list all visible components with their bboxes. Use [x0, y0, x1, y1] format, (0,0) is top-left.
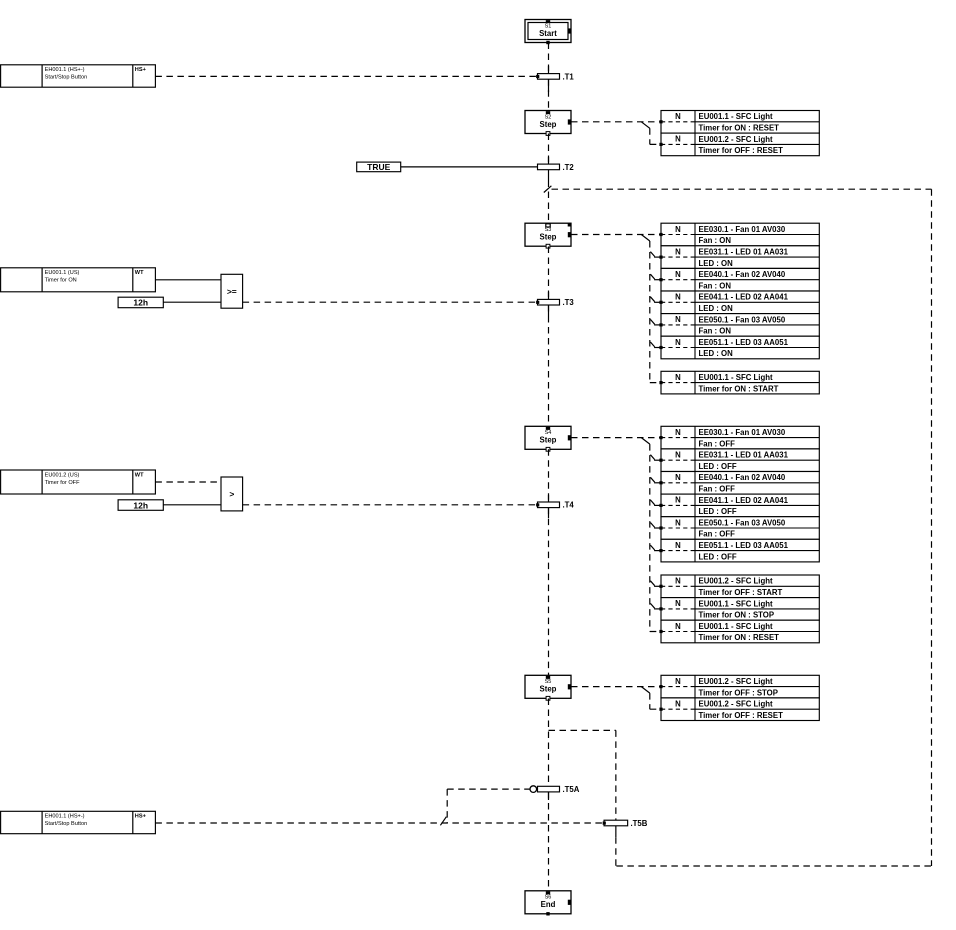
step S5 (Step) — [525, 675, 571, 700]
step S1 (Start) — [525, 20, 571, 45]
step S4 (Step) — [525, 426, 571, 451]
wire: T3 to S4 — [548, 247, 550, 300]
action S4-4: N qualifier, EE041.1 - LED 02 AA041 — [659, 494, 819, 517]
action S4-3: N qualifier, EE040.1 - Fan 02 AV040 — [659, 472, 819, 495]
svg-text:N: N — [675, 338, 681, 347]
svg-text:EU001.1 - SFC Light: EU001.1 - SFC Light — [699, 599, 773, 608]
wire: step S2 to its action block (dashed connector) — [571, 122, 661, 145]
svg-text:EU001.1 - SFC Light: EU001.1 - SFC Light — [699, 373, 773, 382]
wire: T5A down to S6 — [548, 792, 550, 891]
svg-text:EE031.1 - LED 01 AA031: EE031.1 - LED 01 AA031 — [699, 451, 789, 460]
svg-text:Timer for OFF : RESET: Timer for OFF : RESET — [699, 711, 784, 720]
svg-text:EU001.1 - SFC Light: EU001.1 - SFC Light — [699, 622, 773, 631]
svg-text:N: N — [675, 293, 681, 302]
svg-text:N: N — [675, 135, 681, 144]
svg-text:LED : OFF: LED : OFF — [699, 552, 737, 561]
svg-text:N: N — [675, 247, 681, 256]
transition T3 — [536, 298, 574, 307]
svg-text:N: N — [675, 700, 681, 709]
svg-text:LED : OFF: LED : OFF — [699, 507, 737, 516]
svg-text:.T3: .T3 — [563, 298, 575, 307]
action S4-2: N qualifier, EE031.1 - LED 01 AA031 — [659, 449, 819, 472]
action S3-3: N qualifier, EE040.1 - Fan 02 AV040 — [659, 268, 819, 291]
svg-text:N: N — [675, 373, 681, 382]
svg-text:.T5A: .T5A — [563, 785, 580, 794]
svg-text:EE041.1 - LED 02 AA041: EE041.1 - LED 02 AA041 — [699, 293, 789, 302]
action S4-5: N qualifier, EE050.1 - Fan 03 AV050 — [659, 517, 819, 540]
wire: S4 to T4 — [548, 449, 550, 502]
svg-text:Step: Step — [540, 436, 557, 445]
svg-text:Timer for OFF : RESET: Timer for OFF : RESET — [699, 146, 784, 155]
svg-text:EE041.1 - LED 02 AA041: EE041.1 - LED 02 AA041 — [699, 496, 789, 505]
junction: branch tick near T5A branch — [440, 817, 446, 826]
step S3 (Step) — [525, 223, 571, 248]
svg-text:N: N — [675, 518, 681, 527]
svg-text:N: N — [675, 112, 681, 121]
svg-text:EE040.1 - Fan 02 AV040: EE040.1 - Fan 02 AV040 — [699, 473, 786, 482]
svg-text:LED : OFF: LED : OFF — [699, 462, 737, 471]
svg-text:EE040.1 - Fan 02 AV040: EE040.1 - Fan 02 AV040 — [699, 270, 786, 279]
input box EU001.1 (US) Timer for ON — [1, 268, 156, 292]
action S3-6: N qualifier, EE051.1 - LED 03 AA051 — [659, 336, 819, 359]
svg-text:.T1: .T1 — [563, 72, 575, 81]
svg-text:LED : ON: LED : ON — [699, 259, 734, 268]
svg-text:>: > — [229, 489, 234, 499]
input box EU001.2 (US) Timer for OFF — [1, 470, 156, 494]
svg-text:EU001.2 - SFC Light: EU001.2 - SFC Light — [699, 577, 773, 586]
svg-text:EE051.1 - LED 03 AA051: EE051.1 - LED 03 AA051 — [699, 338, 789, 347]
junction: return loop merge below T2 (arrow tick) — [544, 186, 552, 193]
svg-text:Start/Stop Button: Start/Stop Button — [45, 821, 88, 827]
svg-text:N: N — [675, 473, 681, 482]
svg-text:N: N — [675, 225, 681, 234]
wire: EH001.1 to T5B (dashed) — [155, 822, 603, 824]
svg-text:N: N — [675, 577, 681, 586]
transition T1 — [536, 72, 574, 81]
svg-text:EU001.2 - SFC Light: EU001.2 - SFC Light — [699, 135, 773, 144]
svg-text:HS+: HS+ — [135, 814, 147, 820]
wire: S1 to T1 — [548, 43, 550, 74]
svg-text:EH001.1 (HS+-): EH001.1 (HS+-) — [45, 814, 85, 820]
svg-text:.T2: .T2 — [563, 163, 575, 172]
svg-text:>=: >= — [227, 286, 237, 296]
svg-text:Fan : OFF: Fan : OFF — [699, 439, 736, 448]
svg-text:Start: Start — [539, 29, 557, 38]
wire: comparator output to T4 (dashed) — [243, 504, 537, 506]
wire: 12h to comparator (solid) — [163, 504, 221, 506]
wire: step S5 to its action block (dashed connector) — [571, 687, 661, 710]
wire: return loop from T5B back to above S3 (right side) — [552, 189, 932, 866]
svg-text:WT: WT — [135, 472, 144, 478]
svg-text:EH001.1 (HS+-): EH001.1 (HS+-) — [45, 67, 85, 73]
marker: S3 top-right corner square — [568, 223, 571, 226]
transition T5B — [603, 819, 648, 828]
svg-text:EU001.2 - SFC Light: EU001.2 - SFC Light — [699, 677, 773, 686]
svg-text:Start/Stop Button: Start/Stop Button — [45, 75, 88, 81]
svg-text:LED : ON: LED : ON — [699, 349, 734, 358]
wire: T4 to S5 — [548, 508, 550, 676]
wire: step S3 to its action block (dashed connector) — [571, 235, 661, 383]
action S3-2: N qualifier, EE031.1 - LED 01 AA031 — [659, 246, 819, 269]
svg-text:Fan : OFF: Fan : OFF — [699, 530, 736, 539]
svg-text:.T4: .T4 — [563, 501, 575, 510]
svg-text:EE050.1 - Fan 03 AV050: EE050.1 - Fan 03 AV050 — [699, 315, 786, 324]
wire: S2 to T2 — [548, 134, 550, 165]
wire: step S4 to its action block (dashed connector) — [571, 438, 661, 632]
svg-text:N: N — [675, 496, 681, 505]
step S2 (Step) — [525, 111, 571, 136]
transition T5A — [530, 785, 580, 794]
wire: comparator output to T3 (dashed) — [243, 301, 537, 303]
action S4-9: N qualifier, EU001.1 - SFC Light — [659, 620, 819, 643]
action S2-1: N qualifier, EU001.1 - SFC Light — [659, 111, 819, 134]
svg-text:N: N — [675, 541, 681, 550]
svg-text:EE051.1 - LED 03 AA051: EE051.1 - LED 03 AA051 — [699, 541, 789, 550]
svg-text:12h: 12h — [133, 500, 148, 510]
svg-text:EE030.1 - Fan 01 AV030: EE030.1 - Fan 01 AV030 — [699, 428, 786, 437]
action S3-4: N qualifier, EE041.1 - LED 02 AA041 — [659, 291, 819, 314]
svg-text:Timer for ON : STOP: Timer for ON : STOP — [699, 611, 775, 620]
action S3-1: N qualifier, EE030.1 - Fan 01 AV030 — [659, 223, 819, 246]
svg-text:Timer for OFF : STOP: Timer for OFF : STOP — [699, 688, 778, 697]
action S5-1: N qualifier, EU001.2 - SFC Light — [659, 675, 819, 698]
action S3-7: N qualifier, EU001.1 - SFC Light — [659, 371, 819, 394]
svg-text:TRUE: TRUE — [367, 162, 390, 172]
wire: EH001.1 to transition T1 (dashed) — [155, 75, 536, 77]
comparator >= (T3 condition) — [221, 274, 243, 308]
svg-text:Fan : OFF: Fan : OFF — [699, 485, 736, 494]
wire: 12h to comparator (solid) — [163, 301, 221, 303]
svg-text:12h: 12h — [133, 298, 148, 308]
svg-text:Timer for OFF : START: Timer for OFF : START — [699, 588, 783, 597]
literal TRUE box — [357, 162, 401, 172]
svg-text:N: N — [675, 428, 681, 437]
svg-text:HS+: HS+ — [135, 67, 147, 73]
comparator > (T4 condition) — [221, 477, 243, 511]
wire: WT output to comparator (dashed) — [155, 481, 221, 483]
svg-text:N: N — [675, 451, 681, 460]
svg-text:EU001.2 (US): EU001.2 (US) — [45, 472, 80, 478]
svg-text:EU001.1 - SFC Light: EU001.1 - SFC Light — [699, 112, 773, 121]
svg-text:EE050.1 - Fan 03 AV050: EE050.1 - Fan 03 AV050 — [699, 518, 786, 527]
transition T4 — [536, 501, 574, 510]
svg-text:EE030.1 - Fan 01 AV030: EE030.1 - Fan 01 AV030 — [699, 225, 786, 234]
svg-text:Timer for ON : RESET: Timer for ON : RESET — [699, 633, 780, 642]
wire: branch up to T5A (dashed) — [447, 789, 530, 823]
input box EH001.1 Start/Stop Button (bottom) — [1, 811, 156, 833]
svg-text:Timer for ON : RESET: Timer for ON : RESET — [699, 124, 780, 133]
step S6 (End) — [525, 891, 571, 916]
action S4-1: N qualifier, EE030.1 - Fan 01 AV030 — [659, 426, 819, 449]
svg-text:End: End — [541, 900, 556, 909]
svg-text:Fan : ON: Fan : ON — [699, 281, 732, 290]
input box EH001.1 Start/Stop Button (top) — [1, 65, 156, 87]
svg-text:N: N — [675, 677, 681, 686]
wire: S5 down to T5A — [548, 699, 550, 787]
svg-text:Timer for OFF: Timer for OFF — [45, 480, 80, 486]
svg-text:Fan : ON: Fan : ON — [699, 236, 732, 245]
literal 12h box (T4 row) — [118, 500, 163, 511]
svg-text:N: N — [675, 599, 681, 608]
svg-text:Timer for ON : START: Timer for ON : START — [699, 384, 779, 393]
wire: T1 to S2 — [548, 79, 550, 110]
wire: WT output to comparator (solid) — [155, 279, 221, 281]
svg-text:N: N — [675, 622, 681, 631]
action S3-5: N qualifier, EE050.1 - Fan 03 AV050 — [659, 314, 819, 337]
wire: T2 down to S3 — [548, 170, 550, 181]
svg-text:Step: Step — [540, 120, 557, 129]
svg-text:WT: WT — [135, 270, 144, 276]
svg-text:.T5B: .T5B — [631, 819, 648, 828]
svg-text:EE031.1 - LED 01 AA031: EE031.1 - LED 01 AA031 — [699, 248, 789, 257]
svg-text:EU001.1 (US): EU001.1 (US) — [45, 270, 80, 276]
wire: T5B down to return loop — [615, 826, 617, 866]
svg-text:LED : ON: LED : ON — [699, 304, 734, 313]
wire: branch from S5 to T5B (dashed) — [549, 730, 616, 820]
wire: TRUE to T2 — [401, 166, 538, 168]
action S4-7: N qualifier, EU001.2 - SFC Light — [659, 575, 819, 598]
literal 12h box (T3 row) — [118, 297, 163, 308]
svg-text:Fan : ON: Fan : ON — [699, 327, 732, 336]
transition T2 — [538, 163, 575, 172]
svg-text:Step: Step — [540, 685, 557, 694]
action S2-2: N qualifier, EU001.2 - SFC Light — [659, 133, 819, 156]
svg-text:Timer for ON: Timer for ON — [45, 278, 77, 284]
action S4-6: N qualifier, EE051.1 - LED 03 AA051 — [659, 539, 819, 562]
svg-text:N: N — [675, 270, 681, 279]
svg-text:EU001.2 - SFC Light: EU001.2 - SFC Light — [699, 700, 773, 709]
action S4-8: N qualifier, EU001.1 - SFC Light — [659, 598, 819, 621]
svg-text:Step: Step — [540, 233, 557, 242]
svg-text:N: N — [675, 315, 681, 324]
action S5-2: N qualifier, EU001.2 - SFC Light — [659, 698, 819, 721]
